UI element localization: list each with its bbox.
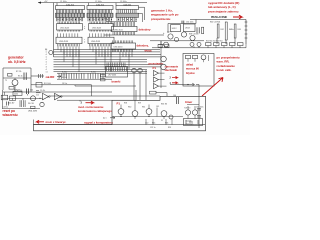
svg-text:przepelnieniu: przepelnieniu bbox=[151, 17, 171, 21]
IC US5 top pins bbox=[113, 22, 135, 26]
svg-text:zal.RR: zal.RR bbox=[46, 75, 56, 79]
svg-text:4060: 4060 bbox=[14, 93, 18, 95]
resistor R29 body bbox=[1, 95, 8, 100]
svg-text:R3: R3 bbox=[105, 19, 107, 21]
digit module row W1 body bbox=[56, 13, 85, 17]
resistor R50 in box bbox=[193, 55, 198, 58]
wire bus line 10 bbox=[54, 71, 148, 73]
wire bus line 2 bbox=[54, 51, 161, 53]
svg-text:kond. calk.: kond. calk. bbox=[217, 68, 232, 72]
svg-text:R11 100k: R11 100k bbox=[44, 83, 51, 85]
capacitor C15 cluster bbox=[27, 89, 29, 95]
capacitor C46 vertical bbox=[177, 97, 179, 104]
svg-text:C9 47n: C9 47n bbox=[40, 90, 45, 92]
svg-text:R63 1M: R63 1M bbox=[161, 103, 168, 105]
svg-text:R43: R43 bbox=[238, 29, 241, 31]
svg-text:US5 4511: US5 4511 bbox=[114, 29, 124, 31]
svg-text:s7: s7 bbox=[46, 64, 48, 66]
svg-text:s4: s4 bbox=[46, 57, 48, 59]
subcircuit box blysk bbox=[183, 54, 214, 87]
resistor R42 vertical bbox=[217, 24, 219, 38]
svg-text:R9 1M: R9 1M bbox=[62, 77, 67, 79]
IC US7 top pins bbox=[107, 63, 125, 67]
svg-text:R7 22k: R7 22k bbox=[16, 71, 22, 73]
wire signal line B bbox=[57, 99, 136, 101]
wire long feed to comparator bbox=[31, 84, 92, 86]
svg-text:s8: s8 bbox=[46, 67, 48, 69]
display W2 body bbox=[87, 6, 113, 10]
IC US2 display driver body bbox=[89, 24, 114, 30]
transistor T2 generator bbox=[12, 80, 18, 86]
svg-text:C15: C15 bbox=[36, 94, 39, 96]
wire cluster mid row bbox=[3, 97, 43, 99]
svg-text:C7 1n: C7 1n bbox=[62, 74, 66, 76]
gate US11b schmitt bbox=[55, 93, 61, 100]
gate US11a schmitt bbox=[43, 93, 49, 100]
svg-text:+: + bbox=[163, 32, 165, 35]
node junction dot cluster bbox=[39, 98, 40, 99]
svg-text:R38 C32 D4: R38 C32 D4 bbox=[189, 34, 198, 36]
svg-text:US13: US13 bbox=[185, 28, 190, 30]
IC US1 bottom pins bbox=[58, 30, 80, 32]
IC US4 counter body bbox=[88, 37, 114, 43]
resistor dots under module W1 bbox=[58, 19, 59, 20]
svg-text:s6: s6 bbox=[46, 62, 48, 64]
svg-text:wlaczeniu: wlaczeniu bbox=[2, 113, 18, 117]
resistor dots under module W2 bbox=[89, 19, 90, 20]
IC US3 counter body bbox=[56, 37, 82, 43]
svg-text:prostown.: prostown. bbox=[186, 122, 195, 125]
gate US8a bbox=[132, 68, 136, 72]
wire bottom feedback long bbox=[34, 124, 206, 126]
svg-text:ok. 0,5 kHz: ok. 0,5 kHz bbox=[8, 60, 26, 64]
svg-text:US4 4518: US4 4518 bbox=[91, 41, 101, 43]
transistor T15 in box bbox=[161, 111, 167, 117]
svg-text:+9V: +9V bbox=[44, 1, 48, 3]
transistor T1 left rail bbox=[49, 51, 53, 55]
wire down to integrator box bbox=[198, 85, 200, 129]
wire row to switch bbox=[204, 41, 246, 44]
svg-text:mod. roznicowemu: mod. roznicowemu bbox=[78, 105, 104, 109]
svg-text:timer: timer bbox=[185, 100, 193, 104]
converter box diode marks bbox=[186, 120, 198, 124]
svg-text:R2: R2 bbox=[105, 16, 107, 18]
resistor R11 body bbox=[36, 83, 42, 88]
svg-text:2: 2 bbox=[170, 77, 172, 80]
IC US2 top pins bbox=[90, 22, 112, 24]
wire left vertical rail bbox=[53, 3, 55, 57]
svg-text:8x10k: 8x10k bbox=[91, 72, 96, 74]
transistor T8 bbox=[190, 35, 195, 40]
wire stubs row to rail bbox=[194, 44, 246, 48]
wire arrow into node bbox=[170, 83, 195, 86]
resistor R45 row bbox=[206, 43, 212, 46]
svg-text:uklad: uklad bbox=[186, 62, 193, 66]
wire bus line 4 bbox=[54, 56, 162, 58]
IC US5 decoder body bbox=[112, 26, 138, 31]
svg-text:R58: R58 bbox=[124, 103, 127, 105]
svg-text:R60: R60 bbox=[128, 107, 131, 109]
IC US3 bottom pins bbox=[58, 44, 80, 47]
transistor T20 small bbox=[169, 115, 173, 119]
svg-text:C1 100n: C1 100n bbox=[60, 1, 67, 3]
digit module row W2 body bbox=[87, 13, 113, 17]
wire bottom stubs bbox=[146, 119, 172, 125]
svg-text:R1: R1 bbox=[105, 14, 107, 16]
IC US4 bottom pins bbox=[90, 44, 112, 47]
wire box interior rail bbox=[112, 116, 183, 118]
gate US8b bbox=[138, 68, 142, 72]
wire bottom right row rail bbox=[152, 47, 246, 49]
IC US12 body bbox=[171, 25, 181, 32]
digit module row W3 body bbox=[116, 13, 139, 17]
transistor T5 bbox=[168, 34, 173, 39]
svg-text:wzorca 90: wzorca 90 bbox=[185, 67, 199, 71]
wire bus line 1 bbox=[54, 49, 161, 51]
wire bus line 9 bbox=[54, 68, 148, 70]
svg-text:sygnal z komparatora: sygnal z komparatora bbox=[84, 120, 113, 124]
converter box body bbox=[184, 119, 203, 126]
IC US13 body bbox=[184, 24, 196, 32]
wire gates down to P1 box bbox=[134, 70, 146, 100]
IC US6 latch body bbox=[111, 43, 136, 49]
svg-text:C2 100n: C2 100n bbox=[95, 1, 102, 3]
svg-text:R65: R65 bbox=[152, 123, 155, 125]
svg-text:C3 100n: C3 100n bbox=[120, 1, 127, 3]
resistor bank R20-R27 bbox=[88, 74, 103, 79]
transistor T21 small bbox=[164, 42, 169, 47]
wire bus line 6 bbox=[54, 61, 148, 63]
svg-text:PRZELACZNIK: PRZELACZNIK bbox=[211, 16, 228, 19]
capacitor C7 hatch bbox=[39, 74, 43, 78]
svg-text:US3 4518: US3 4518 bbox=[59, 41, 69, 43]
capacitor C45 hatch marks bbox=[197, 109, 201, 118]
resistor R41 vertical bbox=[202, 27, 204, 33]
svg-text:T18 T19: T18 T19 bbox=[184, 108, 190, 110]
svg-text:T5: T5 bbox=[5, 80, 7, 82]
svg-text:c: c bbox=[84, 39, 85, 41]
wire taps stack1 to bus bbox=[58, 46, 79, 71]
resistor R49 row bbox=[238, 43, 244, 46]
wire lower rail 1 bbox=[57, 72, 147, 74]
wire transistor stubs in box bbox=[121, 100, 164, 119]
svg-text:b: b bbox=[84, 28, 85, 30]
svg-text:3: 3 bbox=[81, 102, 83, 105]
IC US7 internal pins bbox=[107, 67, 127, 71]
svg-text:C45 100n: C45 100n bbox=[196, 106, 203, 108]
svg-text:generator: generator bbox=[8, 56, 24, 60]
IC US7 4066 body bbox=[106, 67, 128, 78]
resistor R46 row bbox=[214, 43, 220, 46]
crystal X1 vertical bbox=[225, 22, 227, 40]
capacitor C20 in box bbox=[186, 55, 191, 58]
svg-text:C30 100n: C30 100n bbox=[186, 21, 193, 23]
svg-text:dekodery: dekodery bbox=[139, 28, 151, 32]
svg-text:R5 1k: R5 1k bbox=[18, 76, 23, 78]
svg-text:s10: s10 bbox=[46, 71, 49, 73]
svg-text:bramki: bramki bbox=[112, 80, 121, 84]
svg-text:T2 T3: T2 T3 bbox=[167, 31, 171, 33]
wire bus line 7 bbox=[54, 63, 162, 65]
IC US1 top pins bbox=[58, 22, 80, 24]
svg-text:R12 4k7: R12 4k7 bbox=[8, 103, 14, 105]
resistor R6 generator bbox=[9, 87, 14, 90]
diode D6 row bbox=[197, 42, 201, 46]
resistor dots under module W3 bbox=[118, 19, 119, 20]
wire +9V top power rail bbox=[38, 2, 147, 4]
svg-text:R55: R55 bbox=[168, 127, 171, 129]
wire bus line 5 bbox=[54, 58, 148, 60]
wire col3 under-row bbox=[106, 21, 137, 23]
svg-text:US7 4066: US7 4066 bbox=[108, 75, 116, 77]
wire signal line A bbox=[50, 95, 160, 97]
digit module row W3 pin wires bbox=[117, 17, 136, 21]
arrow to bus black bbox=[57, 75, 61, 77]
wire bus line 3 bbox=[54, 53, 162, 55]
svg-text:R40 C34 R44: R40 C34 R44 bbox=[210, 22, 220, 24]
svg-text:C14: C14 bbox=[30, 90, 33, 92]
resistor R48 row bbox=[230, 43, 236, 46]
capacitor C17 cluster bbox=[7, 102, 9, 106]
transistor T13 in box bbox=[132, 111, 138, 117]
wire right top rail bbox=[190, 19, 246, 21]
transistor T12 in box bbox=[118, 109, 124, 115]
red arrow diagonal bbox=[202, 78, 223, 97]
svg-text:R42: R42 bbox=[221, 29, 224, 31]
svg-text:s9: s9 bbox=[46, 69, 48, 71]
svg-text:R61: R61 bbox=[142, 107, 145, 109]
transistor T11 in box bbox=[201, 55, 206, 60]
svg-text:US1 4543: US1 4543 bbox=[60, 28, 70, 30]
wire box top feed bbox=[135, 90, 137, 100]
svg-text:US12: US12 bbox=[172, 28, 177, 30]
wire right column left rail bbox=[160, 41, 162, 88]
wire generator loop bbox=[3, 68, 44, 92]
svg-text:US11 4093: US11 4093 bbox=[28, 110, 37, 112]
svg-text:8x10k: 8x10k bbox=[62, 72, 67, 74]
wire gate outputs bbox=[159, 73, 167, 86]
wire bottom long rail bbox=[38, 91, 112, 93]
transistor T9 bbox=[161, 56, 167, 62]
transistor T14 in box bbox=[146, 109, 152, 115]
svg-text:C46: C46 bbox=[173, 95, 176, 97]
wire col3 corner right bbox=[139, 14, 143, 23]
svg-text:C8 10n: C8 10n bbox=[62, 83, 67, 85]
svg-text:US2 4543: US2 4543 bbox=[92, 28, 102, 30]
wire cluster low row bbox=[3, 108, 41, 110]
svg-text:C52 1u: C52 1u bbox=[150, 127, 156, 129]
svg-text:s2: s2 bbox=[46, 52, 48, 54]
resistor R5 generator bbox=[8, 74, 13, 77]
diode D5 row bbox=[190, 42, 194, 46]
wire feed lower bbox=[75, 85, 136, 87]
svg-text:P1: P1 bbox=[117, 102, 121, 106]
wire T21 link bbox=[160, 41, 162, 45]
resistor R13 cluster small bbox=[31, 106, 36, 108]
svg-text:do 1: do 1 bbox=[103, 118, 107, 120]
svg-text:8MHz: 8MHz bbox=[229, 29, 234, 31]
svg-text:US6 4553: US6 4553 bbox=[114, 47, 124, 49]
svg-text:blysku: blysku bbox=[186, 71, 195, 75]
transistor T7 bbox=[181, 32, 186, 37]
svg-text:dekodery,: dekodery, bbox=[137, 44, 149, 48]
wire mid horizontal bus to right circuit bbox=[104, 34, 164, 36]
display W1 pin wires bbox=[57, 10, 83, 14]
svg-text:mod. z linearyz.: mod. z linearyz. bbox=[46, 120, 67, 124]
wire transistor row bbox=[150, 40, 204, 42]
svg-text:s5: s5 bbox=[46, 59, 48, 61]
wire stub rail to display W1 bbox=[57, 3, 116, 6]
red arrow range switch bbox=[233, 15, 242, 19]
svg-text:R50 R51 R52 R53 R54: R50 R51 R52 R53 R54 bbox=[206, 41, 223, 43]
svg-text:s3: s3 bbox=[46, 54, 48, 56]
transistor T16 timer bbox=[185, 110, 190, 115]
IC US6 top pins bbox=[113, 40, 133, 43]
transistor T6 bbox=[175, 38, 179, 42]
resistor R43 vertical bbox=[234, 24, 236, 38]
svg-text:P1: P1 bbox=[153, 66, 157, 70]
IC US1 display driver body bbox=[57, 24, 83, 30]
svg-text:kondensatora calkujacego: kondensatora calkujacego bbox=[78, 109, 112, 113]
wire col3 display corner bbox=[139, 7, 145, 20]
wire lower rail 2 bbox=[57, 78, 112, 80]
IC US6 bottom pins bbox=[113, 49, 133, 52]
IC US5 bottom pins bbox=[113, 32, 135, 35]
display W1 body bbox=[56, 6, 85, 10]
display W3 body bbox=[116, 6, 139, 10]
resistor bank R10-R17 bbox=[59, 74, 84, 79]
red arrow node 3 bbox=[86, 101, 94, 104]
wire cluster stubs bbox=[5, 90, 41, 101]
digit module row W1 pin wires bbox=[57, 17, 83, 21]
red arrow mod-z bbox=[37, 120, 45, 123]
svg-text:R66: R66 bbox=[165, 123, 168, 125]
capacitor C40 top of box bbox=[150, 91, 157, 94]
svg-text:mostek: mostek bbox=[186, 120, 192, 123]
IC US10 small body bbox=[13, 91, 22, 95]
node dots in box bbox=[120, 116, 121, 117]
integrator box outline bbox=[34, 96, 206, 131]
wire timer verticals bbox=[187, 105, 199, 119]
capacitor C30 top bbox=[182, 21, 184, 24]
capacitor C31 vertical pair bbox=[197, 27, 199, 33]
diode D2 body bbox=[10, 96, 16, 100]
wire cluster left rail bbox=[2, 90, 4, 109]
switch S1 contacts bbox=[245, 20, 247, 45]
capacitor C5 generator bbox=[24, 73, 26, 81]
svg-text:a: a bbox=[84, 26, 85, 28]
IC US4 top pins bbox=[90, 33, 110, 37]
resistor R47 row bbox=[222, 43, 228, 46]
transistor T17 timer bbox=[192, 110, 197, 115]
svg-text:D7: D7 bbox=[161, 120, 163, 122]
svg-text:R59: R59 bbox=[138, 103, 141, 105]
gate US14a bbox=[154, 71, 159, 76]
display W2 pin wires bbox=[88, 10, 111, 14]
svg-text:przestrajanie zakresu: przestrajanie zakresu bbox=[208, 9, 239, 13]
wire cap to corner bbox=[156, 93, 167, 97]
svg-text:d: d bbox=[84, 41, 85, 43]
wire taps stack3 to bus bbox=[114, 50, 132, 70]
resistor R33 small bbox=[101, 75, 106, 77]
resistor R34 small bbox=[101, 79, 106, 81]
svg-text:s1: s1 bbox=[46, 49, 48, 51]
transistor T10 bbox=[161, 64, 167, 70]
resistor R36 small bbox=[158, 45, 163, 48]
transistor T3 cluster bbox=[31, 96, 36, 101]
gate US14c bbox=[154, 84, 159, 89]
gate US14b bbox=[154, 77, 159, 82]
IC US3 top pins bbox=[58, 33, 78, 37]
transistor T4 cluster bbox=[40, 102, 44, 106]
resistor R37 small bbox=[165, 45, 170, 48]
display W3 pin wires bbox=[117, 10, 136, 14]
svg-text:C41: C41 bbox=[156, 106, 159, 108]
wire bus line 8 bbox=[54, 66, 162, 68]
svg-text:D3 C16: D3 C16 bbox=[28, 103, 34, 105]
wire 1Hz loop bbox=[168, 20, 196, 34]
svg-text:C50: C50 bbox=[145, 123, 148, 125]
svg-text:sluchawki: sluchawki bbox=[165, 68, 178, 72]
capacitor bank cluster 2 bbox=[20, 100, 25, 107]
wire taps stack2 to bus bbox=[90, 46, 111, 71]
wire in-box stubs bbox=[188, 55, 209, 62]
IC US2 bottom pins bbox=[90, 30, 112, 32]
digit module row W2 pin wires bbox=[88, 17, 111, 21]
